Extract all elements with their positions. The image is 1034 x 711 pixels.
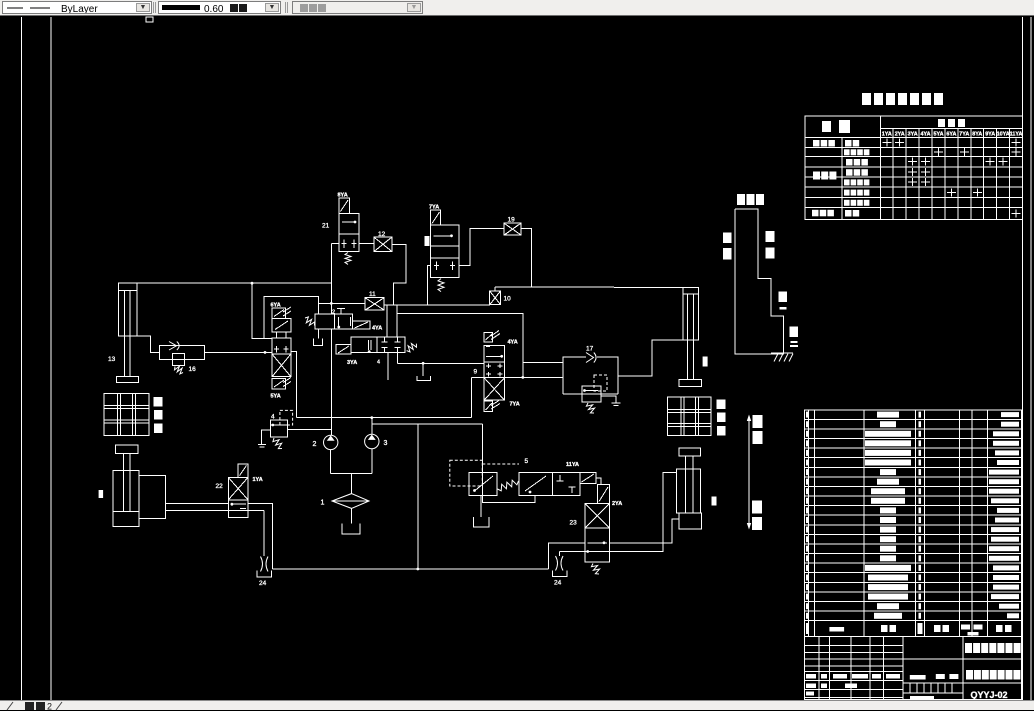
pump riser upper segment bbox=[330, 244, 332, 314]
loop vertical x418 bbox=[417, 424, 419, 569]
drain tank below wire y363 bbox=[417, 363, 430, 380]
electromagnet sequence table bbox=[805, 116, 1023, 219]
BOM row contents bbox=[806, 412, 1019, 619]
wire valve 23 bottom to ejection cylinder top bbox=[559, 473, 676, 552]
relief valve 4 dot bbox=[271, 424, 274, 427]
valve 5 drain port and tank bbox=[473, 496, 489, 528]
relief valve 4 spring bbox=[273, 438, 282, 449]
table header 工况 and 电磁铁 text bbox=[822, 119, 965, 133]
svg-text:23: 23 bbox=[570, 520, 578, 527]
throttle valve 12 bbox=[374, 237, 392, 251]
label 原位停 bbox=[737, 194, 764, 205]
label 11 bbox=[369, 291, 376, 298]
valve 5 box 3 (ports) bbox=[553, 473, 580, 496]
pump 2 bbox=[324, 435, 338, 449]
wire valve 20 to valve 9 left bbox=[398, 362, 484, 364]
cylinder 13 (left press cylinder) bbox=[117, 283, 139, 383]
svg-text:2YA: 2YA bbox=[612, 501, 622, 507]
wire valve 5 to valve 23 bbox=[596, 478, 601, 485]
valve 23 spring bbox=[591, 564, 599, 575]
valve 5 spring bbox=[498, 480, 519, 491]
svg-text:4: 4 bbox=[271, 414, 275, 421]
label 压榨箱 left bbox=[154, 397, 163, 433]
ground symbol bbox=[771, 353, 793, 362]
valve 20 bottom left port line bbox=[387, 353, 389, 381]
cycle profile diagram bbox=[735, 209, 783, 354]
junction dot riser x331 bbox=[330, 302, 333, 305]
wire valve 15 right port down to pump line bbox=[291, 352, 297, 418]
svg-text:24: 24 bbox=[259, 580, 267, 587]
svg-text:10: 10 bbox=[504, 296, 512, 303]
wire B y424 bbox=[372, 423, 483, 425]
junction dot wire y363 bbox=[422, 362, 425, 365]
wire throttle 11 to valve 20 A port bbox=[386, 305, 388, 337]
junction dots x418 bbox=[416, 568, 419, 571]
wire y287 to right cylinder bbox=[495, 286, 683, 288]
svg-text:17: 17 bbox=[586, 346, 594, 353]
stroke arrowheads bbox=[747, 415, 751, 530]
label 21 bbox=[322, 223, 330, 230]
label 24 left bbox=[259, 580, 267, 587]
drawing title 液压系统原理图 bbox=[966, 670, 1020, 680]
valve 18 body box bbox=[431, 225, 459, 246]
svg-text:1YA: 1YA bbox=[882, 132, 892, 138]
valve 18 spring bbox=[438, 279, 444, 292]
valve 20 bottom right port line bbox=[397, 353, 399, 364]
check valve 16 poppet symbol bbox=[169, 342, 179, 351]
relief valve dot bbox=[583, 389, 586, 392]
cylinder right press bbox=[679, 287, 702, 386]
svg-text:16: 16 bbox=[189, 366, 197, 373]
valve 22 dot bbox=[231, 503, 234, 506]
label 顶出 bbox=[753, 415, 763, 444]
valve 15 solenoid 5YA box bbox=[272, 378, 291, 389]
junction dot pump3 riser on wire A bbox=[370, 416, 373, 419]
svg-text:1: 1 bbox=[321, 500, 325, 507]
wire cyl13 top to riser bbox=[137, 282, 331, 284]
valve 9 port box bbox=[484, 362, 504, 378]
svg-text:11: 11 bbox=[369, 291, 376, 298]
pilot loop around valve 15 bbox=[264, 297, 319, 339]
label 慢二 bbox=[790, 327, 799, 348]
svg-text:2: 2 bbox=[332, 310, 335, 316]
pump suction manifold bbox=[331, 449, 372, 494]
relief valve spring bbox=[586, 403, 594, 413]
label 10 bbox=[504, 296, 512, 303]
svg-text:0.60: 0.60 bbox=[204, 4, 224, 13]
svg-text:8YA: 8YA bbox=[972, 132, 982, 138]
relief loop rectangle bbox=[563, 357, 618, 394]
svg-text:4: 4 bbox=[377, 360, 380, 366]
school name 哈尔滨理工大学 bbox=[965, 643, 1021, 653]
relief valve 4 pilot dashed box bbox=[280, 410, 293, 425]
valve 22 crossed box bbox=[228, 477, 248, 499]
svg-text:6YA: 6YA bbox=[271, 303, 281, 309]
wire throttle 11 to valve 10 (W1) bbox=[384, 304, 490, 306]
svg-text:8YA: 8YA bbox=[338, 193, 348, 199]
viewport grip square bbox=[146, 17, 153, 22]
label 3YA bbox=[347, 360, 357, 366]
valve 14 spring left bbox=[305, 317, 315, 326]
junction on wire y283 bbox=[251, 282, 254, 285]
label 16 bbox=[189, 366, 197, 373]
junction dot x522 bbox=[521, 376, 524, 379]
label 7YA top bbox=[429, 205, 439, 211]
svg-text:4YA: 4YA bbox=[508, 340, 518, 346]
valve 5 box1 dot bbox=[473, 489, 476, 492]
BOM parts list table bbox=[805, 410, 1022, 637]
wire branch y362 to relief loop bbox=[523, 361, 563, 363]
pump 3 bbox=[365, 434, 379, 448]
wire valve 9 left pilot stub bbox=[471, 377, 484, 417]
valve 18 port box bbox=[431, 246, 459, 278]
press block bbox=[139, 476, 166, 519]
wire valve 23 right to ejection cylinder bottom bbox=[610, 519, 680, 543]
title block signature blobs bbox=[806, 674, 958, 700]
svg-text:22: 22 bbox=[216, 483, 224, 490]
wire drop x252 to valve 15 port bbox=[252, 283, 272, 338]
valve 23 port box bbox=[585, 528, 609, 562]
filter suction pipe and tank bbox=[342, 508, 360, 534]
valve 21 spring bbox=[345, 253, 351, 265]
label 6YA bbox=[271, 303, 281, 309]
label 4YA bbox=[372, 326, 382, 332]
table row condition labels bbox=[812, 140, 869, 217]
relief valve 4 drain tank bbox=[258, 430, 271, 447]
label 5 bbox=[525, 458, 529, 465]
label 19 bbox=[508, 217, 516, 224]
svg-text:9: 9 bbox=[474, 369, 478, 376]
label 4YA valve 9 bbox=[508, 340, 518, 346]
svg-text:5YA: 5YA bbox=[934, 132, 944, 138]
marker rect left bbox=[99, 490, 104, 498]
label 11YA bbox=[566, 462, 579, 468]
valve 23 solenoid box bbox=[597, 485, 609, 504]
wire right cylinder to relief loop bbox=[618, 340, 683, 376]
valve 20 solenoid box (3YA) bbox=[336, 345, 351, 355]
stroke arrow line bbox=[748, 418, 750, 527]
valve 15 body box 1 bbox=[272, 318, 291, 332]
wire riser elbow to valve 21 bbox=[331, 243, 339, 245]
sheet frame outer left border bbox=[21, 17, 23, 700]
wire valve 9 right port to relief loop bbox=[505, 376, 564, 378]
valve 9 top solenoid box (4YA) bbox=[484, 331, 500, 342]
valve 15 body box 2 (ports) bbox=[272, 338, 291, 354]
label 4 bbox=[271, 414, 275, 421]
svg-text:12: 12 bbox=[378, 231, 386, 238]
valve 9 body box 1 bbox=[484, 345, 504, 362]
marker rect ejection cylinder bbox=[712, 497, 717, 506]
drawing number QYYJ-02 bbox=[970, 690, 1007, 700]
svg-text:5YA: 5YA bbox=[271, 394, 281, 400]
svg-text:ByLayer: ByLayer bbox=[61, 4, 98, 13]
marker rect beside valve 18 bbox=[425, 236, 430, 246]
label 2 bbox=[313, 441, 317, 448]
table title 电磁铁动作顺序 bbox=[862, 93, 943, 105]
label 7YA valve 9 bbox=[510, 402, 520, 408]
check valve 16 spring bbox=[175, 366, 184, 374]
label 12 bbox=[378, 231, 386, 238]
throttle valve 11 bbox=[365, 298, 384, 310]
valve 18 body dot bbox=[450, 234, 453, 237]
wire loop to riser and throttle 11 bbox=[319, 302, 366, 304]
svg-text:6YA: 6YA bbox=[946, 132, 956, 138]
valve 21 solenoid box (8YA) bbox=[339, 198, 349, 213]
wire relief 4 to riser bbox=[288, 428, 332, 430]
svg-text:7YA: 7YA bbox=[959, 132, 969, 138]
label 1 bbox=[321, 500, 325, 507]
label 17 bbox=[586, 346, 594, 353]
relief valve pilot dashed box bbox=[594, 375, 607, 391]
wire bottom y569 bbox=[272, 568, 548, 570]
svg-text:2YA: 2YA bbox=[895, 132, 905, 138]
check valve 17 bbox=[586, 353, 596, 363]
svg-text:QYYJ-02: QYYJ-02 bbox=[970, 690, 1007, 700]
tank box left (压榨箱) bbox=[104, 393, 149, 435]
svg-text:4YA: 4YA bbox=[372, 326, 382, 332]
valve 14 dot bbox=[337, 326, 340, 329]
svg-text:21: 21 bbox=[322, 223, 330, 230]
valve 5 solenoid end box bbox=[580, 473, 596, 484]
valve 18 solenoid box (7YA) bbox=[431, 210, 441, 225]
wire throttle 19 down to cylinder line bbox=[521, 229, 531, 288]
wire W1 down to valve 20 top bbox=[396, 305, 398, 337]
wire press block to valve 22 bbox=[166, 502, 229, 504]
title block grid bbox=[805, 637, 1022, 700]
valve 14 solenoid box bbox=[353, 321, 370, 329]
relief valve 4 bbox=[270, 420, 287, 437]
valve 15 solenoid 6YA box bbox=[272, 307, 291, 318]
valve 9 bottom solenoid box bbox=[484, 401, 500, 412]
svg-text:24: 24 bbox=[554, 580, 562, 587]
wire valve16 to valve 15 left port bbox=[204, 351, 272, 353]
valve 14 drain tank bbox=[314, 329, 323, 346]
ejection cylinder bbox=[676, 448, 701, 529]
wire valve 18 left port down to W1 bbox=[428, 266, 431, 306]
label 快退 bbox=[723, 233, 732, 260]
svg-text:3YA: 3YA bbox=[908, 132, 918, 138]
table plus marks bbox=[882, 139, 1020, 218]
valve 5 box 1 bbox=[469, 473, 497, 496]
coupling 24 right stub bbox=[558, 552, 560, 557]
label 14 bbox=[377, 360, 380, 366]
relief valve box in loop bbox=[582, 386, 601, 402]
wire A y417 bbox=[297, 417, 472, 419]
coupling 24 left tank bbox=[257, 571, 271, 578]
valve 10 stub to wire y287 bbox=[494, 287, 496, 291]
svg-text:5: 5 bbox=[525, 458, 529, 465]
pump riser lower segment bbox=[330, 329, 332, 435]
svg-text:7YA: 7YA bbox=[510, 402, 520, 408]
tank box right (压榨箱) bbox=[668, 397, 712, 436]
coupling 24 right bbox=[556, 556, 564, 571]
svg-text:9YA: 9YA bbox=[985, 132, 995, 138]
cylinder 2 lower left bbox=[113, 445, 139, 526]
svg-text:2: 2 bbox=[313, 441, 317, 448]
label 13 bbox=[108, 356, 116, 363]
svg-text:11YA: 11YA bbox=[566, 462, 579, 468]
valve 21 port box bbox=[339, 234, 359, 251]
wire valve 22 down to bottom line bbox=[248, 503, 272, 569]
label 9 bbox=[474, 369, 478, 376]
wire valve 21 to throttle 12 bbox=[359, 243, 374, 245]
svg-text:11YA: 11YA bbox=[1010, 132, 1023, 138]
label 24 right bbox=[554, 580, 562, 587]
pump 3 riser bbox=[371, 418, 373, 435]
filter 1 bbox=[332, 494, 369, 509]
BOM header row bbox=[806, 623, 1012, 636]
label 3 bbox=[384, 440, 388, 447]
valve 15 port stubs bbox=[277, 332, 287, 338]
junction dot y352 bbox=[264, 351, 267, 354]
valve 14 body (4YA spool valve) bbox=[315, 314, 352, 329]
valve 20 body bbox=[351, 337, 405, 353]
throttle valve 19 bbox=[504, 223, 521, 235]
svg-text:13: 13 bbox=[108, 356, 116, 363]
label 复位 bbox=[752, 501, 762, 531]
valve 5 supply port from loop bbox=[482, 424, 535, 502]
sheet frame outer right border bbox=[1030, 17, 1032, 700]
valve 10 (pilot check) bbox=[490, 291, 501, 305]
valve 22 port box bbox=[228, 500, 248, 518]
wire throttle 12 down to valve junction bbox=[392, 244, 406, 305]
wire W2 branch to x522 bbox=[397, 314, 523, 378]
valve 9 crossed box bbox=[484, 378, 504, 401]
label 压榨箱 right bbox=[717, 400, 726, 436]
label 8YA bbox=[338, 193, 348, 199]
label 2 bbox=[332, 310, 335, 316]
sheet frame inner left border bbox=[50, 17, 52, 700]
label 5YA bbox=[271, 394, 281, 400]
valve 9 body dot bbox=[500, 355, 503, 358]
label 快进 bbox=[766, 231, 775, 259]
svg-text:19: 19 bbox=[508, 217, 516, 224]
valve 21 body box bbox=[339, 213, 359, 234]
svg-text:3: 3 bbox=[384, 440, 388, 447]
valve 5 pilot dashed link bbox=[482, 463, 519, 465]
valve 20 spring right bbox=[407, 344, 417, 352]
sheet frame inner right border bbox=[1022, 17, 1024, 700]
coupling 24 right tank bbox=[553, 570, 567, 576]
label 7 bbox=[0, 0, 1, 1]
valve 5 box 2 bbox=[519, 473, 553, 496]
wire press block to coupling 24 bbox=[166, 510, 264, 512]
valve 23 crossed box bbox=[585, 504, 609, 528]
valve 21 body dot bbox=[354, 221, 357, 224]
label 22 bbox=[216, 483, 224, 490]
label 23 bbox=[570, 520, 578, 527]
svg-text:3YA: 3YA bbox=[347, 360, 357, 366]
wire valve 23 left port bbox=[549, 543, 586, 569]
table YA column labels bbox=[882, 132, 1023, 138]
coupling 24 left stub bbox=[263, 511, 265, 557]
valve 15 crossed box bbox=[272, 354, 291, 377]
label 2YA bbox=[612, 501, 622, 507]
svg-text:10YA: 10YA bbox=[997, 132, 1010, 138]
label 慢一 bbox=[779, 292, 788, 310]
coupling 24 left bbox=[261, 557, 269, 572]
valve 14 top pilot stub bbox=[337, 309, 345, 315]
valve 23 dots bbox=[586, 541, 605, 553]
valve 22 solenoid box (1YA) bbox=[238, 464, 248, 477]
svg-text:1YA: 1YA bbox=[253, 477, 263, 483]
svg-text:4YA: 4YA bbox=[921, 132, 931, 138]
valve 20 dot bbox=[368, 350, 371, 353]
valve 5 pilot dashed box bbox=[450, 460, 483, 486]
relief valve drain bbox=[601, 396, 621, 406]
marker rect right cylinder bbox=[703, 357, 708, 367]
svg-text:7YA: 7YA bbox=[429, 205, 439, 211]
label 1YA bbox=[253, 477, 263, 483]
check valve 16 (pilot check with relief) bbox=[159, 346, 204, 366]
wire valve 18 right port to throttle 19 bbox=[459, 229, 504, 266]
valve 5 box2 dot bbox=[529, 491, 532, 494]
wire cyl13 side to check valve 16 bbox=[137, 336, 159, 352]
